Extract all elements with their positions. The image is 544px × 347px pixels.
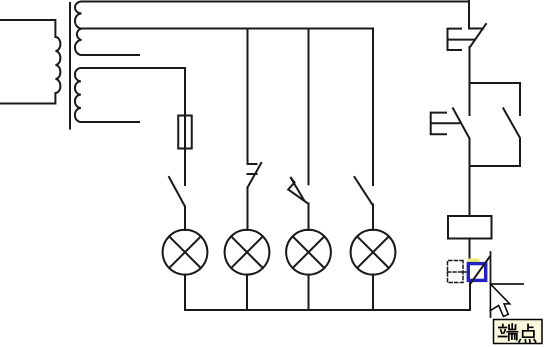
bottom rail: [185, 309, 470, 311]
tooltip box: [494, 320, 543, 344]
wire through fuse: [184, 116, 186, 149]
wire: branch 2 drop: [247, 29, 249, 165]
mouse arrow cursor: [490, 284, 509, 317]
wire: lamp1 to bottom rail: [184, 275, 186, 310]
wire: down to coil KM: [469, 166, 471, 216]
contact K1 left: wire: [469, 83, 471, 115]
contact K1 blade: [453, 108, 470, 138]
switch blade being drawn: [471, 257, 490, 284]
wire: QS to contactor pair: [469, 47, 471, 83]
wire: snap point down to bottom rail: [469, 282, 471, 310]
switch S2 contact bars: [248, 164, 257, 174]
transformer T1 primary winding: [0, 20, 60, 104]
wire: secondary2 top terminal to fuse branch: [81, 68, 185, 116]
contact K2 blade: [503, 108, 520, 137]
lamp HL1: [163, 230, 208, 275]
wire: secondary2 bottom stub: [81, 121, 139, 123]
wire: branch 4 drop: [372, 29, 374, 186]
contact K1 bracket: [431, 113, 459, 135]
wire below K2: [519, 139, 521, 166]
wire: lamp3 to bottom rail: [308, 275, 310, 310]
dashed bracket middle bar: [448, 271, 468, 273]
wire: right drop to switch QS: [468, 1, 470, 29]
switch S3 pull-cord actuator: [288, 177, 308, 204]
wire: S1 to lamp 1: [184, 207, 186, 231]
wire: secondary1 bottom stub: [82, 54, 140, 56]
wire: S4 to lamp 4: [372, 205, 374, 231]
transformer secondary 1 coil: [75, 2, 82, 56]
crosshair right arm: [491, 283, 524, 285]
crosshair vertical arm: [490, 252, 492, 284]
wire: fuse to switch S1: [184, 149, 186, 186]
lamp HL3: [286, 230, 331, 275]
wire: rejoin bottom bar: [470, 165, 521, 167]
lamp HL2: [225, 230, 270, 275]
wire: S3 to lamp 3: [308, 204, 310, 231]
dashed switch bracket (highlighted object): [448, 261, 464, 283]
switch QS fixed contact bar: [469, 28, 483, 30]
lamp HL4: [351, 230, 396, 275]
crosshair bottom arm tail: [490, 308, 492, 317]
switch S2 blade: [248, 163, 262, 188]
switch QS blade: [470, 24, 486, 47]
wire: split top bar: [470, 82, 521, 84]
contact K2 right: wire: [519, 83, 521, 115]
wire: branch 3 drop: [308, 29, 310, 185]
contactor coil KM: [448, 216, 492, 239]
transformer core: [69, 3, 71, 129]
wire below K1: [469, 139, 471, 166]
switch S1 blade: [169, 177, 185, 207]
fuse FU: [178, 116, 192, 149]
wire: lamp4 to bottom rail: [372, 275, 374, 310]
endpoint snap marker (blue square): [468, 264, 485, 281]
wire: KM to snap point: [469, 239, 471, 263]
tooltip text glyph: 点: [519, 325, 536, 343]
transformer secondary 2 coil: [75, 68, 81, 122]
switch QS manual-drive bracket: [448, 29, 475, 50]
tooltip text glyph: 端: [499, 324, 518, 340]
switch S4 blade: [355, 177, 373, 205]
yellow highlight segment: [468, 259, 480, 264]
wire: S2 to lamp 2: [247, 188, 249, 231]
wire: mid rail from secondary1 tap to branch 4: [80, 28, 373, 30]
wire: lamp2 to bottom rail: [246, 275, 248, 310]
wire: top rail from secondary1 top to right side: [82, 1, 470, 3]
